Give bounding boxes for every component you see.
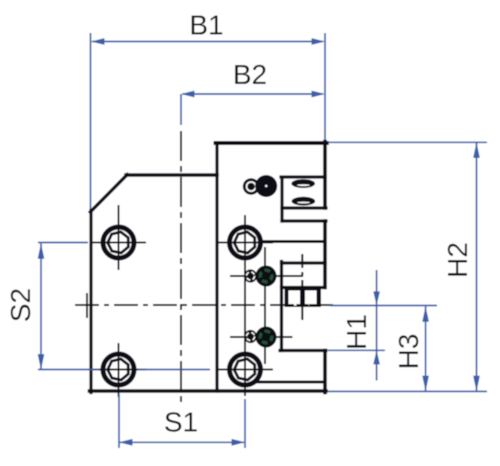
extension B2 left (upper part of centerline): [180, 94, 182, 125]
wire step line y=382: [257, 381, 325, 384]
arrow H2 bottom: [473, 376, 480, 392]
dimension line H3: [425, 307, 427, 391]
screw block body: [285, 288, 322, 308]
bolt top-left: [101, 225, 136, 260]
pin circle large top (solid): [255, 175, 277, 197]
wire clamp-box bottom y=287.5: [282, 286, 326, 289]
bolt bottom-right: [228, 352, 263, 387]
wire left edge: [89, 211, 92, 393]
wire right-block top edge: [216, 141, 327, 145]
arrow B2 right: [312, 91, 326, 98]
wire crosshair bottom-left bolt horizontal: [92, 369, 147, 371]
screw green mid: [256, 266, 277, 287]
extension S1 left x=119: [118, 394, 120, 448]
arrow H1 bottom pointing up: [373, 350, 380, 364]
arrow H1 top pointing down: [373, 291, 380, 305]
arrow B2 left: [181, 91, 195, 98]
extension H1 bottom y=350.3: [328, 349, 385, 351]
screw green low: [256, 327, 277, 348]
wire left-plate top edge: [126, 173, 217, 176]
wire right edge middle: [323, 221, 327, 288]
bolt top-right: [228, 225, 263, 260]
svg-text:B2: B2: [233, 59, 267, 90]
arrow B1 left: [91, 38, 105, 45]
oval slot lower: [292, 197, 316, 206]
svg-text:H2: H2: [442, 242, 473, 278]
extension H1 H3 top y=305.5: [330, 305, 437, 307]
svg-text:S1: S1: [164, 407, 198, 438]
extension B1 left x=90.5: [90, 33, 92, 209]
centerline horizontal part axis y=305: [75, 304, 335, 306]
wire bottom edge: [90, 389, 327, 393]
wire crosshair top-left bolt horizontal: [92, 242, 147, 244]
pin circle small top (ring): [243, 178, 260, 195]
dimension line S1: [120, 441, 244, 443]
arrow S2 bottom: [38, 354, 45, 370]
center cross tick at left edge: [86, 293, 88, 318]
wire slot bottom y=350.5: [280, 349, 326, 352]
wire notch line y=221: [282, 219, 326, 222]
arrow H3 top: [422, 306, 429, 322]
extension bottom y=390: [328, 390, 487, 392]
dimension line B1: [92, 41, 323, 43]
wire chamfer top-left: [90, 175, 127, 213]
dimension line H2: [476, 143, 478, 391]
extension S2 top y=243: [38, 242, 88, 244]
arrow S1 left: [119, 439, 133, 446]
wire slot-box left x=282: [280, 178, 283, 222]
screw small mid (ring): [244, 269, 257, 282]
dimension line B2: [183, 93, 324, 95]
wire crosshair top-left bolt vertical: [118, 205, 120, 270]
wire right edge lower: [323, 351, 327, 393]
wire divider x=217: [215, 143, 218, 391]
screw small low (ring): [244, 330, 257, 343]
centerline vertical part axis x=181: [180, 131, 182, 402]
dimension line H1: [376, 270, 378, 381]
wire right edge upper: [323, 142, 327, 209]
wire groove line y=241.5: [262, 240, 325, 243]
wire crosshair circle pair 2 horizontal y=337: [230, 336, 293, 338]
wire crosshair bottom-left bolt vertical: [118, 343, 120, 397]
arrow S1 right: [232, 439, 246, 446]
extension B right x=324.5: [324, 33, 326, 140]
svg-text:B1: B1: [189, 10, 223, 41]
wire slot-box top y=177: [281, 175, 325, 178]
arrow S2 top: [38, 243, 45, 258]
arrowheads blue: [38, 38, 480, 446]
node circle column x=265: [264, 247, 266, 364]
oval slot upper: [291, 179, 315, 188]
svg-text:H3: H3: [393, 334, 424, 370]
wire crosshair circle pair 1 horizontal y=276: [230, 275, 303, 277]
extension S1 right x=245: [244, 399, 246, 448]
arrow H2 top: [473, 142, 480, 158]
bolt bottom-left: [101, 352, 136, 387]
arrow H3 bottom: [422, 376, 429, 392]
dimension line S2: [40, 244, 42, 370]
svg-text:H1: H1: [341, 314, 372, 350]
centerline clamp screw x=302.3: [301, 254, 303, 323]
wire crosshair bottom-right bolt horizontal: [218, 369, 273, 371]
svg-text:S2: S2: [5, 288, 36, 322]
extension S2 bottom y=370: [38, 369, 99, 371]
node bolt column right vertical x=245.5: [244, 215, 246, 396]
extension H2 top y=143: [328, 141, 487, 143]
arrow B1 right: [312, 38, 326, 45]
wire clamp-box left x=281.5: [280, 262, 283, 351]
wire slot-box bottom y=208: [282, 206, 326, 209]
wire clamp-box top y=263: [282, 261, 326, 264]
wire crosshair top-right bolt horizontal: [218, 242, 273, 244]
